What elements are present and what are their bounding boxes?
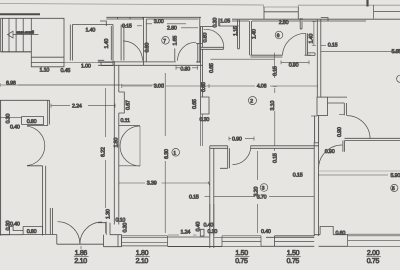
- svg-text:2: 2: [250, 99, 253, 105]
- svg-text:3.10: 3.10: [270, 101, 276, 111]
- svg-text:0.90: 0.90: [325, 149, 335, 155]
- room3 door jamb left: [220, 146, 230, 169]
- svg-text:0.30: 0.30: [200, 117, 210, 123]
- room5 left wall / room2 left wall: [201, 27, 203, 97]
- room5 top wall: [200, 26, 213, 28]
- radiator box upper left: [22, 117, 44, 125]
- pier bottom tick: [311, 115, 317, 117]
- right double-swing door semicircle: [120, 126, 140, 166]
- room6 right wall: [300, 18, 302, 29]
- dim tick 0.15: [321, 45, 326, 47]
- wall pier outline room4 door: [317, 97, 328, 115]
- top outline step x100-106: [100, 21, 106, 26]
- svg-text:1.24: 1.24: [181, 230, 191, 236]
- svg-text:2.10: 2.10: [136, 258, 149, 265]
- top wall rooms mid: [106, 17, 201, 19]
- svg-text:3.70: 3.70: [257, 194, 267, 200]
- stair treads upper flight: [3, 18, 32, 52]
- dim line 3.39: [119, 181, 210, 185]
- svg-text:1.50: 1.50: [287, 250, 300, 257]
- svg-text:1.80: 1.80: [136, 250, 149, 257]
- hall side walls at entrance: [50, 208, 52, 235]
- svg-text:0.80: 0.80: [27, 229, 37, 235]
- dim line 5.9 right room: [319, 173, 388, 177]
- svg-text:3.00: 3.00: [154, 19, 164, 25]
- left wall building: [0, 100, 2, 235]
- right double-swing door chord: [139, 126, 141, 166]
- bottom right notch: [320, 227, 333, 235]
- dim line 5.8 room4: [321, 50, 400, 52]
- svg-text:0.80: 0.80: [180, 67, 190, 73]
- dim line 6.22: [105, 88, 107, 233]
- room5 top window: [219, 18, 239, 26]
- dim ticks on 86 line: [122, 84, 317, 88]
- svg-text:0.15: 0.15: [293, 172, 303, 178]
- room6 door leaf: [306, 33, 308, 55]
- room 3 number circle: [260, 184, 268, 192]
- svg-text:0.45: 0.45: [61, 68, 71, 74]
- room4 door arc: [347, 116, 370, 139]
- dim 0.80 room7 door: [176, 66, 198, 70]
- room7 right wall: [196, 17, 202, 63]
- svg-text:0.30: 0.30: [123, 223, 129, 233]
- svg-text:2.50: 2.50: [279, 20, 289, 26]
- dim line 6.30: [164, 73, 166, 233]
- window band 1: [122, 236, 168, 246]
- svg-text:1.30: 1.30: [106, 209, 112, 219]
- entrance fraction 1.86/2.10: [74, 255, 89, 257]
- fraction 1.80/2.10: [135, 255, 150, 257]
- dim line 6.96 right part: [18, 84, 164, 86]
- svg-text:0.65: 0.65: [201, 82, 207, 92]
- room6 left wall: [250, 21, 252, 55]
- right double-swing door opening walls: [119, 126, 140, 166]
- room4 dim line 1.40: [312, 22, 316, 46]
- svg-text:6.22: 6.22: [101, 147, 107, 157]
- svg-text:1.86: 1.86: [75, 250, 88, 257]
- svg-text:5.85: 5.85: [392, 49, 400, 55]
- svg-text:0.15: 0.15: [189, 195, 199, 201]
- svg-text:1.40: 1.40: [86, 28, 96, 34]
- dim line 1.24: [168, 234, 197, 236]
- svg-text:6.96: 6.96: [6, 80, 16, 86]
- entrance door right arc: [80, 222, 102, 244]
- svg-text:0.30: 0.30: [5, 114, 11, 124]
- room 4 number circle clipped: [397, 75, 400, 82]
- room7 door arc: [178, 42, 197, 61]
- wall jog bump: [119, 92, 125, 113]
- left double-swing door opening walls: [27, 126, 48, 166]
- svg-text:0.65: 0.65: [192, 99, 198, 109]
- top wall tick boxes: [118, 17, 144, 19]
- left room right wall upper: [48, 100, 50, 124]
- window band 4: [348, 234, 400, 246]
- dim tick 0.90 room4 door: [339, 113, 344, 115]
- room5 door arc: [206, 29, 224, 47]
- top border line: [0, 4, 400, 8]
- svg-text:0.30: 0.30: [212, 18, 218, 28]
- svg-text:0.90: 0.90: [232, 136, 242, 142]
- WC room top wall: [72, 24, 113, 26]
- svg-text:1.50: 1.50: [235, 250, 248, 257]
- svg-text:3.39: 3.39: [147, 181, 157, 187]
- svg-text:1.05: 1.05: [220, 18, 230, 24]
- room5 door leaf tick: [204, 28, 206, 30]
- wall pier mid: [210, 204, 214, 248]
- room3 door arc: [233, 146, 251, 164]
- svg-text:5.90: 5.90: [391, 173, 400, 179]
- right room top wall: [345, 138, 400, 140]
- svg-text:0.11: 0.11: [121, 118, 130, 124]
- svg-text:1.00: 1.00: [81, 64, 91, 70]
- svg-text:0.40: 0.40: [204, 222, 214, 228]
- svg-text:0.90: 0.90: [289, 62, 299, 68]
- svg-text:0.30: 0.30: [208, 229, 218, 235]
- wall outer line right of window1: [168, 246, 223, 248]
- tick above 1.86: [80, 246, 82, 249]
- svg-text:0.60: 0.60: [336, 231, 346, 237]
- svg-text:0.65: 0.65: [209, 63, 215, 73]
- left room right wall lower: [43, 125, 48, 236]
- entrance door left arc: [58, 222, 80, 244]
- svg-text:0.15: 0.15: [273, 66, 279, 76]
- staircase box: [1, 18, 64, 67]
- left room top wall: [0, 99, 50, 101]
- svg-text:casa scarii: casa scarii: [17, 29, 34, 34]
- svg-text:0.80: 0.80: [27, 119, 37, 125]
- WC room right wall: [111, 25, 113, 61]
- wall x314 lower: [314, 142, 318, 236]
- room7 door leaf: [174, 49, 176, 62]
- svg-text:2.24: 2.24: [72, 103, 82, 109]
- dim line 3.70: [214, 196, 314, 198]
- radiator box lower left: [23, 227, 42, 235]
- room4 top notch: [321, 18, 328, 22]
- dim tick 0.15 top: [137, 25, 142, 27]
- window band 2: [214, 236, 261, 247]
- left room bottom wall: [0, 234, 57, 236]
- vertical dim line 0.15: [273, 53, 275, 78]
- room4 door wall top: [328, 97, 348, 103]
- room 5 number circle clipped: [391, 184, 398, 191]
- window band 3: [266, 236, 314, 247]
- svg-text:2.10: 2.10: [74, 258, 87, 265]
- room7 bottom wall right part: [196, 61, 201, 63]
- svg-text:1.40: 1.40: [252, 29, 258, 39]
- small box pier: [200, 229, 204, 236]
- dim line 0.90 room6 door: [281, 60, 309, 64]
- WC room left wall: [70, 25, 72, 61]
- svg-text:5: 5: [392, 186, 395, 192]
- svg-text:3.00: 3.00: [154, 84, 164, 90]
- vertical thin line x257: [256, 204, 258, 233]
- fraction 1.50/0.75 second: [286, 255, 301, 257]
- room3 top wall right corner: [314, 142, 318, 144]
- svg-text:0.80: 0.80: [203, 33, 209, 43]
- room 2 number circle: [249, 97, 257, 105]
- svg-text:6.30: 6.30: [164, 149, 170, 159]
- room6 door arc: [282, 33, 305, 55]
- left double-swing door semicircle: [27, 126, 45, 165]
- hall bottom outer corner block: [104, 235, 122, 247]
- hall top wall: [98, 62, 203, 65]
- svg-text:2.80: 2.80: [167, 26, 177, 32]
- svg-text:2.00: 2.00: [367, 250, 380, 257]
- dim line 0.90 room3 door: [229, 137, 254, 141]
- svg-text:0.75: 0.75: [235, 258, 248, 265]
- thin line under room6: [211, 58, 275, 60]
- room2 left wall lower: [201, 114, 203, 146]
- svg-text:7: 7: [163, 38, 166, 44]
- outer wall above staircase: [0, 13, 40, 15]
- vestibule right wall: [98, 222, 110, 235]
- room5 right wall: [238, 20, 240, 49]
- WC bottom wall pieces: [98, 60, 113, 65]
- hall-left wall (x114-119): [114, 61, 119, 225]
- dim line 1.00: [64, 62, 98, 64]
- notch left: [0, 227, 23, 235]
- fraction 1.50/0.75 first: [235, 255, 250, 257]
- svg-text:0.15: 0.15: [122, 24, 132, 30]
- svg-text:0.80: 0.80: [145, 43, 151, 53]
- svg-text:0.40: 0.40: [10, 125, 20, 131]
- vertical dim line room3: [256, 151, 258, 180]
- dim line 3.00 top: [147, 23, 187, 25]
- svg-text:1.15: 1.15: [233, 26, 239, 36]
- svg-text:4.06: 4.06: [257, 83, 267, 89]
- svg-text:0.40: 0.40: [261, 229, 271, 235]
- top wall right section: [232, 19, 400, 21]
- outer wall line gap fill: [261, 245, 266, 247]
- svg-text:0.75: 0.75: [367, 258, 380, 265]
- room2 vertical dim line: [273, 87, 277, 147]
- svg-text:1.80: 1.80: [113, 138, 119, 148]
- room 6 number circle: [275, 31, 283, 39]
- room3 0.15 tick: [273, 148, 275, 151]
- svg-text:0.15: 0.15: [328, 42, 338, 48]
- svg-text:0.75: 0.75: [287, 258, 300, 265]
- svg-text:0.90: 0.90: [337, 127, 343, 137]
- dim line 0.15 hall: [205, 195, 210, 197]
- dim line 2.80 top: [181, 27, 198, 29]
- stair direction arrow head: [8, 31, 14, 38]
- stair landing edge: [1, 51, 32, 53]
- room 7 number circle: [162, 37, 170, 45]
- line to left wall: [0, 117, 22, 119]
- svg-text:1.10: 1.10: [40, 68, 50, 74]
- room4 door jamb: [344, 103, 346, 115]
- right room door jamb: [343, 141, 345, 152]
- fraction 2.00/0.75: [366, 255, 381, 257]
- svg-text:0.15: 0.15: [273, 153, 279, 163]
- room3 left wall: [210, 146, 214, 236]
- svg-text:1.40: 1.40: [104, 39, 110, 49]
- room6 bottom wall: [250, 55, 311, 57]
- svg-text:0.10: 0.10: [116, 217, 126, 223]
- room7 left wall: [144, 17, 147, 65]
- top right window: [374, 5, 400, 19]
- room6 right wall lower end: [300, 28, 302, 30]
- svg-text:0.67: 0.67: [126, 100, 132, 110]
- room4 left wall: [317, 20, 321, 97]
- light boundary line right room: [319, 170, 400, 172]
- room 1 number circle: [172, 149, 180, 157]
- dim line 3.00/4.06: [122, 85, 317, 87]
- room2/3 right wall upper: [315, 116, 319, 143]
- stair treads lower flight: [31, 57, 64, 62]
- dim line 6.96: [0, 83, 164, 87]
- svg-text:1.40: 1.40: [309, 34, 315, 44]
- room5 bottom wall: [201, 47, 240, 49]
- room3 top wall: [210, 146, 319, 149]
- svg-text:1: 1: [173, 151, 176, 157]
- svg-text:0.30: 0.30: [6, 221, 12, 231]
- wall inner line right of window1: [168, 236, 210, 238]
- svg-text:3: 3: [262, 186, 265, 192]
- stair direction arrow tail: [13, 34, 39, 36]
- room6 top window bump: [264, 7, 298, 19]
- svg-text:6: 6: [277, 33, 280, 39]
- dim line 2.24: [51, 104, 115, 108]
- bottom wall right section: [314, 235, 347, 247]
- svg-text:1.65: 1.65: [173, 36, 179, 46]
- door arc WC/hall: [123, 41, 143, 61]
- shaft box room2: [201, 97, 209, 114]
- top right wall thick mark: [366, 0, 368, 7]
- building outer corner left: [57, 235, 104, 245]
- door jamb stub and leaf WC/hall: [121, 25, 126, 61]
- right room door arc: [319, 145, 343, 169]
- small wall piece right of leaf: [307, 53, 315, 56]
